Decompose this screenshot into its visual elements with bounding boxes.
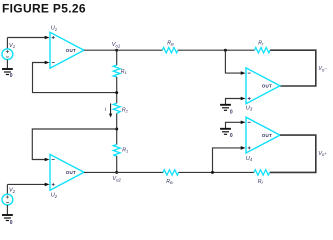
- svg-text:U1: U1: [51, 26, 57, 32]
- svg-text:R1: R1: [121, 69, 127, 75]
- ground of V2: [2, 215, 13, 226]
- resistor Rf bottom: [254, 170, 270, 175]
- node junction top: [224, 49, 227, 52]
- node Vo2: [115, 171, 118, 174]
- svg-text:OUT: OUT: [66, 170, 76, 175]
- svg-text:RB: RB: [166, 179, 173, 185]
- svg-text:U3: U3: [246, 105, 253, 111]
- svg-text:FIGURE P5.26: FIGURE P5.26: [2, 2, 86, 16]
- resistor R1 bottom: [113, 145, 120, 156]
- svg-text:U2: U2: [51, 193, 58, 199]
- svg-text:OUT: OUT: [66, 48, 76, 53]
- op-amp U3: [246, 68, 280, 104]
- wire U1 feedback from node A: [33, 61, 117, 93]
- svg-text:Vo1: Vo1: [112, 42, 120, 48]
- wire U1 output to node Vo1: [84, 49, 117, 51]
- wire U2 output to bottom rail: [84, 171, 117, 173]
- current arrow i: [109, 103, 112, 117]
- op-amp U1: [50, 32, 84, 68]
- svg-text:R1: R1: [122, 148, 128, 154]
- wire top rail: [117, 49, 163, 51]
- wire U4 output elbow to bottom right rail: [270, 135, 316, 172]
- svg-text:R2: R2: [122, 107, 129, 113]
- wire R1 to node A: [116, 77, 118, 104]
- ground of V1: [2, 69, 13, 79]
- middle column: wire Vo1 down: [116, 50, 118, 65]
- wire U4 - input to ground: [226, 121, 246, 129]
- svg-text:0: 0: [10, 220, 13, 226]
- wire U4 + input from bottom junction: [213, 146, 246, 172]
- wire rail to bottom junction: [179, 171, 254, 173]
- resistor R1 top: [113, 65, 120, 77]
- voltage source V1: [2, 38, 13, 69]
- wire U2 feedback from node B: [32, 129, 116, 161]
- svg-text:0: 0: [230, 133, 233, 139]
- op-amp U2: [50, 154, 84, 190]
- svg-text:V2: V2: [9, 188, 16, 194]
- node bottom junction: [211, 171, 214, 174]
- resistor RB top: [162, 48, 178, 53]
- ground of U4: [220, 129, 233, 139]
- ground of U3: [220, 105, 233, 116]
- wire junction to U3 - input: [225, 50, 245, 75]
- resistor Rf top: [255, 48, 271, 53]
- resistor RB bottom: [163, 170, 179, 175]
- svg-text:OUT: OUT: [262, 84, 272, 89]
- svg-text:0: 0: [230, 109, 233, 115]
- svg-text:RB: RB: [167, 40, 174, 46]
- voltage source V2: [2, 184, 13, 214]
- wire R2 to node B: [116, 114, 118, 145]
- wire Rf to right rail corner down to U3 output: [270, 50, 316, 86]
- svg-text:V1: V1: [9, 43, 15, 49]
- node A: [115, 91, 118, 94]
- node B: [115, 128, 118, 131]
- node Vo1: [115, 49, 118, 52]
- wire bottom rail Vo2 to Rg: [117, 171, 164, 173]
- wire rail RB to junction: [178, 49, 255, 51]
- op-amp U4: [246, 117, 280, 153]
- svg-text:0: 0: [10, 73, 13, 79]
- resistor R2: [113, 103, 120, 113]
- svg-text:U4: U4: [246, 156, 253, 162]
- svg-text:OUT: OUT: [262, 133, 272, 138]
- svg-text:Vo2: Vo2: [112, 176, 121, 182]
- wire V2 to U2 + input: [7, 183, 49, 187]
- wire R1 bottom to node Vo2: [116, 156, 118, 173]
- wire V1 to U1 + input: [7, 36, 49, 40]
- wire U3 + input to ground: [226, 97, 246, 105]
